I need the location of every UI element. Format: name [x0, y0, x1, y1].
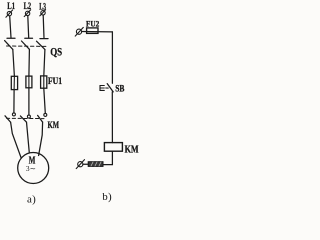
fuse FU2 — [87, 28, 98, 34]
svg-text:L1: L1 — [7, 1, 15, 11]
wire terminal to FU2 and corner — [82, 31, 113, 33]
pushbutton SB — [100, 84, 113, 92]
wire fuse to bottom terminal — [83, 163, 88, 165]
wire KM coil to bottom corner — [103, 151, 112, 164]
svg-text:FU2: FU2 — [86, 19, 99, 28]
fuse FU1 pole 2 — [26, 76, 32, 88]
fuse FU1 pole 1 — [11, 76, 17, 89]
KM main contact pole 3 — [38, 113, 47, 122]
terminal L3 — [40, 10, 46, 16]
svg-text:b): b) — [102, 191, 112, 203]
wire L3 terminal to QS — [42, 15, 45, 38]
switch QS pole 2 — [22, 38, 33, 49]
KM main contact pole 2 — [20, 115, 30, 122]
wire right side down to SB — [111, 32, 113, 83]
svg-text:3∼: 3∼ — [26, 164, 36, 173]
wire FU1 to KM contact pole 1 — [13, 90, 15, 113]
svg-text:KM: KM — [48, 120, 60, 130]
fuse (bottom of control circuit) — [88, 162, 103, 167]
terminal L2 — [24, 10, 31, 17]
fuse FU1 pole 3 — [41, 76, 47, 88]
contactor coil KM — [104, 143, 122, 152]
KM main contact pole 1 — [5, 113, 15, 122]
wire FU1 to KM contact pole 2 — [28, 88, 30, 115]
wire L1 terminal to QS — [10, 16, 11, 38]
wire KM contact to motor pole 1 — [11, 122, 21, 157]
KM linkage (dashed) — [7, 117, 45, 119]
wire KM contact to motor pole 2 — [27, 122, 30, 153]
svg-text:KM: KM — [125, 144, 139, 155]
svg-text:QS: QS — [50, 47, 62, 59]
switch QS pole 1 — [5, 38, 15, 49]
svg-text:a): a) — [27, 194, 36, 206]
terminal (top of control circuit) — [75, 27, 83, 36]
QS linkage (dashed) — [7, 45, 48, 47]
wire QS to FU1 pole 1 — [13, 49, 15, 76]
svg-text:FU1: FU1 — [48, 76, 63, 86]
wire L2 terminal to QS — [27, 16, 30, 38]
motor M 3~ — [18, 153, 49, 184]
wire QS to FU1 pole 2 — [28, 49, 31, 76]
terminal L1 — [6, 10, 13, 17]
wire QS to FU1 pole 3 — [44, 50, 45, 76]
wire FU1 to KM contact pole 3 — [44, 88, 46, 113]
wire SB to KM coil — [111, 92, 113, 143]
svg-text:SB: SB — [115, 84, 124, 94]
wire KM contact to motor pole 3 — [39, 122, 43, 156]
switch QS pole 3 — [37, 39, 49, 50]
terminal (bottom of control circuit) — [76, 160, 84, 169]
